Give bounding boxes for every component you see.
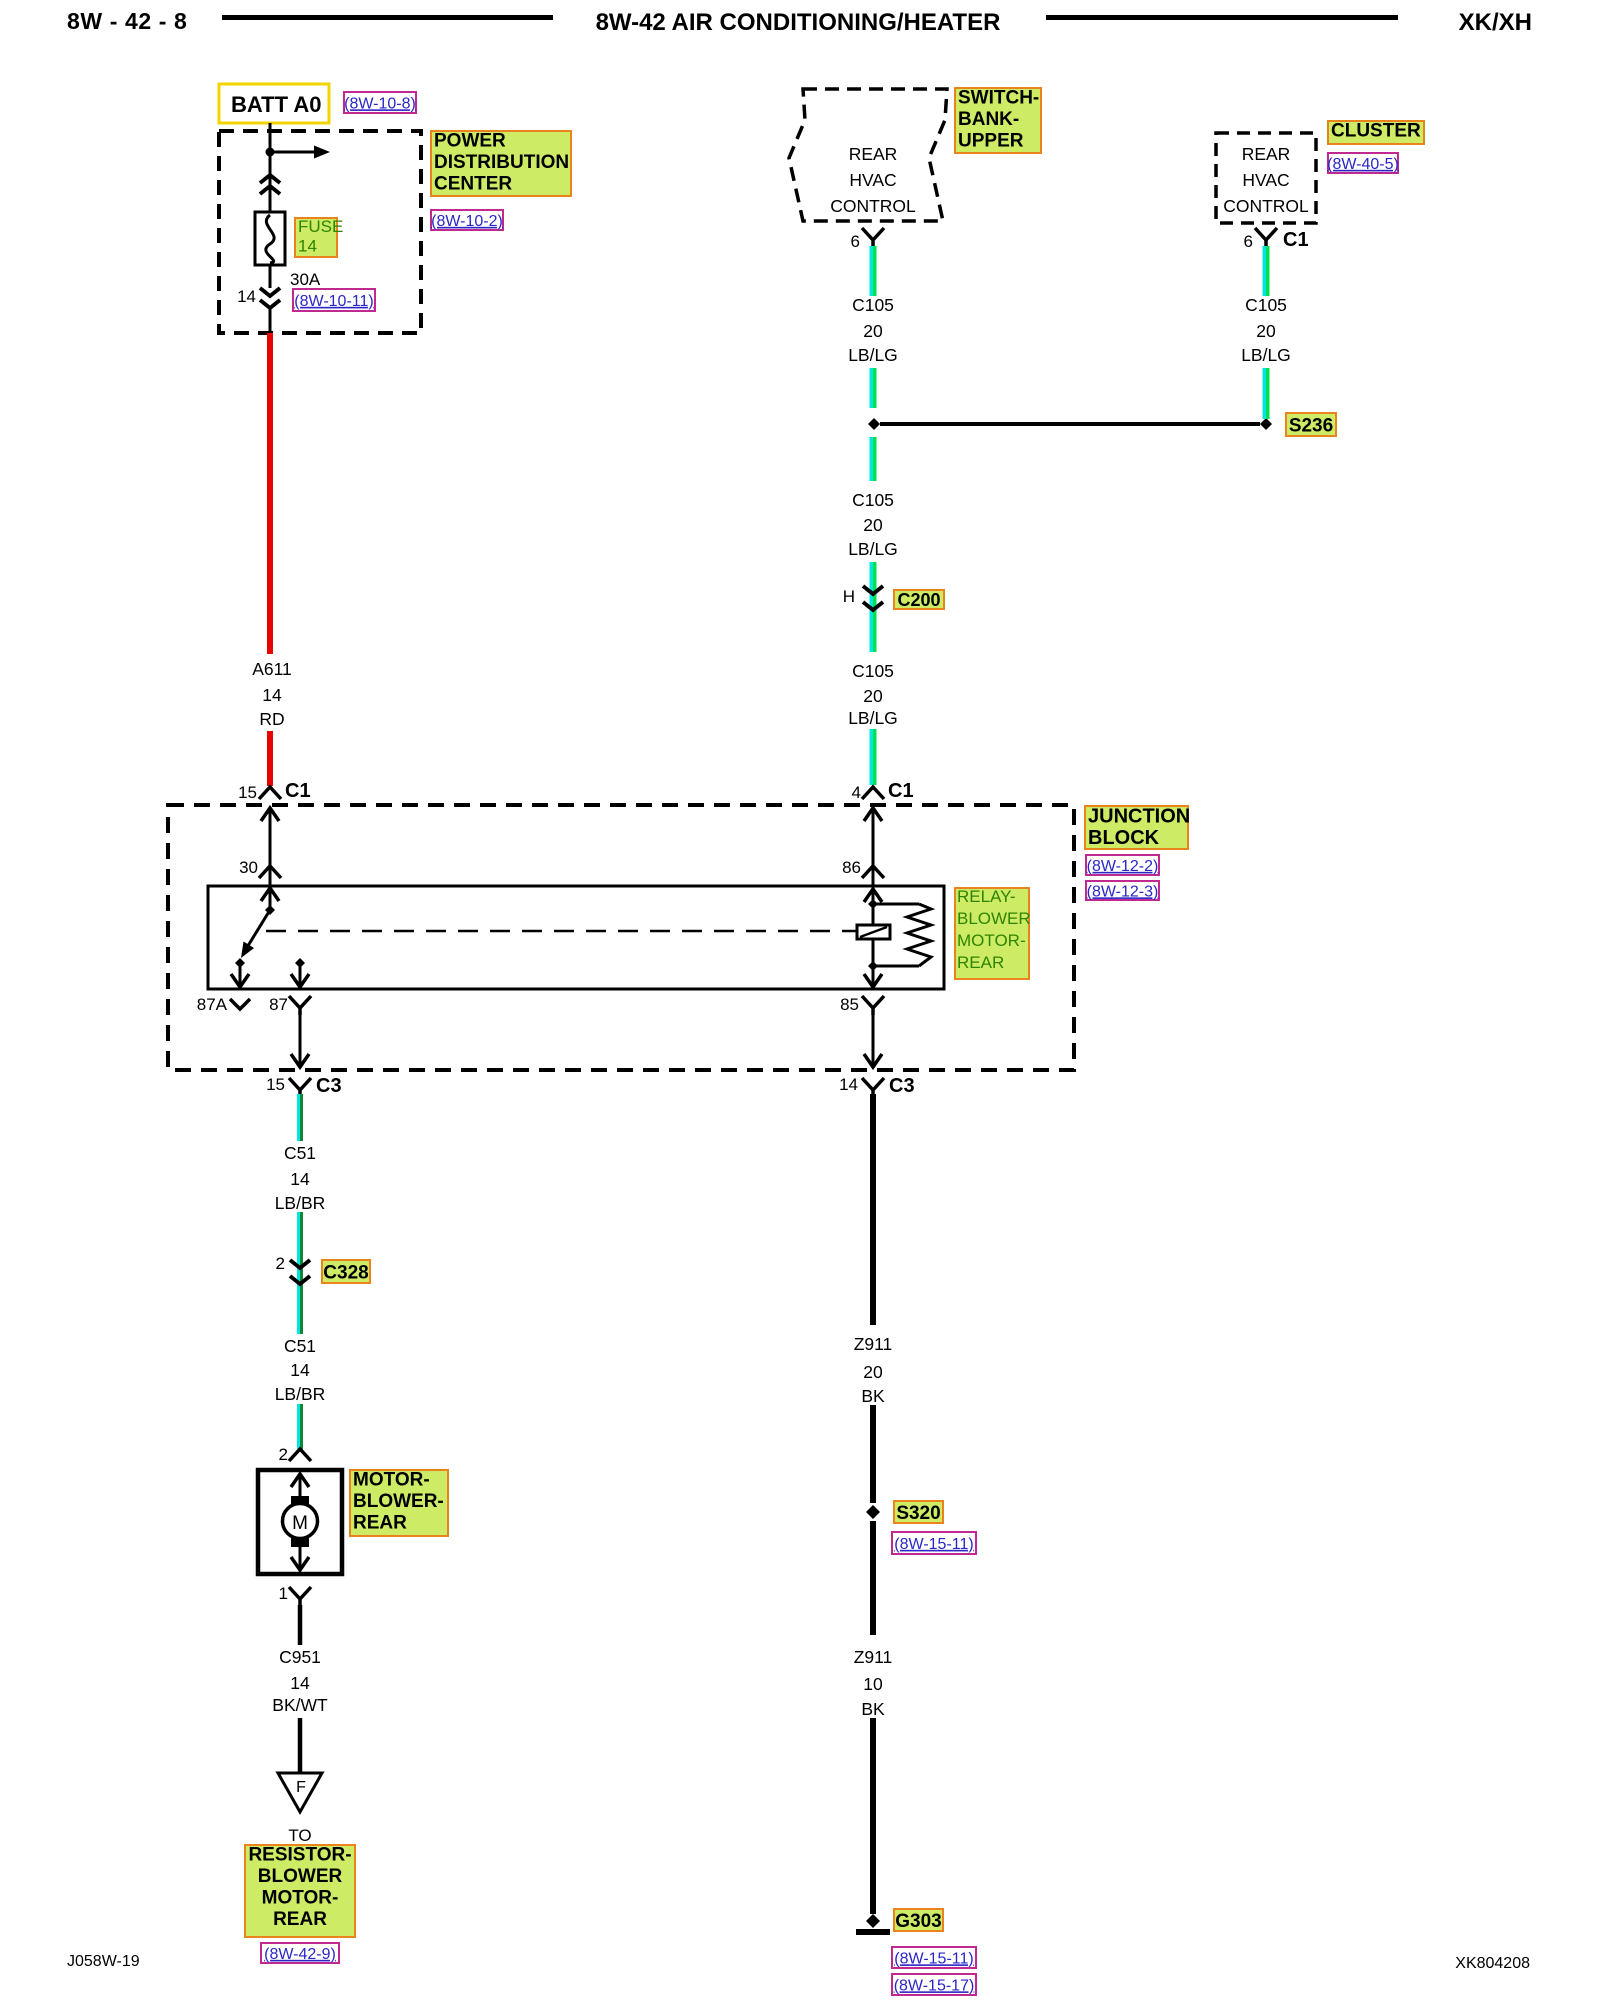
power distribution center box — [219, 131, 421, 333]
svg-text:BATT A0: BATT A0 — [231, 92, 321, 117]
wire C51 LB/BR seg4 — [297, 1404, 303, 1450]
svg-text:C105: C105 — [852, 490, 894, 510]
svg-text:BLOWER: BLOWER — [957, 909, 1031, 928]
relay common arrow — [261, 888, 279, 901]
connector pin 87 — [289, 996, 311, 1015]
svg-text:CLUSTER: CLUSTER — [1331, 121, 1421, 142]
svg-text:C328: C328 — [323, 1262, 368, 1283]
wire C1 pin15 to relay — [269, 808, 272, 886]
svg-text:87A: 87A — [197, 995, 228, 1014]
node battery feed junction — [266, 148, 275, 157]
arrow 85 at block edge — [864, 1054, 882, 1067]
cluster rear hvac control outline — [1216, 133, 1316, 223]
svg-text:(8W-10-11): (8W-10-11) — [294, 293, 373, 310]
relay switch pivot node — [265, 905, 275, 915]
connector pin 87A — [230, 999, 250, 1009]
svg-text:BLOCK: BLOCK — [1088, 827, 1160, 849]
svg-text:A611: A611 — [252, 659, 292, 679]
connector pin 1 motor — [289, 1587, 311, 1606]
svg-text:15: 15 — [266, 1075, 285, 1094]
motor armature M — [283, 1504, 318, 1539]
svg-text:LB/LG: LB/LG — [1241, 345, 1291, 365]
link 8W-42-9 — [261, 1943, 339, 1963]
svg-text:14: 14 — [290, 1673, 310, 1693]
svg-text:C1: C1 — [285, 780, 311, 802]
svg-text:C3: C3 — [316, 1075, 342, 1097]
svg-text:(8W-15-11): (8W-15-11) — [894, 1536, 973, 1553]
svg-text:LB/LG: LB/LG — [848, 539, 898, 559]
svg-text:LB/LG: LB/LG — [848, 345, 898, 365]
svg-text:TO: TO — [288, 1826, 311, 1845]
svg-text:REAR: REAR — [1242, 144, 1291, 164]
svg-text:C51: C51 — [284, 1336, 316, 1356]
svg-text:14: 14 — [839, 1075, 858, 1094]
svg-text:C200: C200 — [897, 590, 940, 610]
wire C1 pin4 to relay — [872, 808, 875, 886]
link 8W-15-11 at G303 — [892, 1947, 976, 1968]
link 8W-10-8 — [344, 92, 416, 113]
wire to 87 — [299, 963, 302, 984]
connector pin 15 C3 — [289, 1078, 311, 1097]
link 8W-12-3 — [1086, 881, 1159, 900]
svg-text:85: 85 — [840, 995, 859, 1014]
svg-text:BLOWER-: BLOWER- — [353, 1491, 444, 1512]
svg-text:RESISTOR-: RESISTOR- — [248, 1845, 351, 1866]
label FUSE 14 — [295, 217, 343, 257]
svg-text:20: 20 — [863, 1362, 883, 1382]
wire 87 to C3 — [299, 1014, 302, 1064]
link 8W-10-11 — [293, 289, 375, 311]
svg-text:SWITCH-: SWITCH- — [958, 88, 1039, 109]
wire Z911 BK seg4 — [870, 1718, 876, 1914]
label C328 — [322, 1260, 370, 1283]
svg-text:S320: S320 — [896, 1503, 940, 1524]
wire fuse to PDC edge — [269, 265, 272, 288]
svg-text:F: F — [296, 1779, 306, 1796]
svg-text:C951: C951 — [279, 1647, 321, 1667]
connector pin 15 C1 — [259, 787, 281, 799]
svg-text:(8W-42-9): (8W-42-9) — [264, 1946, 336, 1963]
arrow into junction block left — [261, 808, 279, 821]
svg-text:(8W-10-2): (8W-10-2) — [431, 213, 503, 230]
link 8W-15-17 at G303 — [892, 1974, 976, 1995]
svg-text:15: 15 — [238, 783, 257, 802]
wire BATT to fuse — [269, 123, 272, 212]
svg-text:20: 20 — [863, 686, 883, 706]
svg-text:(8W-15-17): (8W-15-17) — [894, 1977, 975, 1994]
arrow 87 at block edge — [291, 1054, 309, 1067]
wire C951 BK/WT seg1 — [298, 1605, 303, 1645]
connector pin 4 C1 — [862, 787, 884, 799]
relay coil wire — [872, 889, 875, 986]
svg-text:REAR: REAR — [353, 1513, 407, 1534]
svg-text:(8W-10-8): (8W-10-8) — [344, 95, 416, 112]
svg-text:20: 20 — [1256, 321, 1276, 341]
svg-text:1: 1 — [279, 1584, 288, 1603]
motor brush top — [291, 1496, 309, 1506]
svg-text:6: 6 — [1244, 232, 1253, 251]
connector pin 30 — [259, 866, 281, 878]
svg-text:LB/BR: LB/BR — [275, 1193, 326, 1213]
wire C105 LB/LG cluster seg2 — [1263, 368, 1270, 419]
wire C105 LB/LG cluster seg1 — [1263, 246, 1270, 296]
relay coil element — [857, 925, 890, 939]
wire 85 to C3 — [872, 1014, 875, 1064]
relay actuator dashed link — [266, 930, 857, 933]
splice node S320 — [866, 1505, 880, 1519]
header rule right — [1046, 15, 1398, 20]
feed arrow to other circuits — [270, 146, 330, 159]
label POWER DISTRIBUTION CENTER — [431, 131, 571, 196]
connector pin 85 — [862, 996, 884, 1015]
svg-text:HVAC: HVAC — [1242, 170, 1289, 190]
svg-text:REAR: REAR — [273, 1909, 327, 1930]
relay switch lever — [241, 910, 270, 958]
wire C105 LB/LG seg6 — [870, 729, 877, 785]
svg-text:POWER: POWER — [434, 131, 506, 152]
svg-text:6: 6 — [851, 232, 860, 251]
relay common stub — [269, 888, 272, 910]
motor lead arrow bottom — [291, 1557, 309, 1570]
wire C105 LB/LG seg3 — [870, 437, 877, 481]
svg-text:S236: S236 — [1289, 415, 1333, 436]
wire C105 LB/LG seg1 — [870, 246, 877, 296]
svg-text:(8W-40-5): (8W-40-5) — [1327, 156, 1399, 173]
svg-text:BK: BK — [861, 1699, 885, 1719]
label JUNCTION BLOCK — [1085, 806, 1190, 850]
connector pin 2 motor — [289, 1449, 311, 1461]
svg-text:XK804208: XK804208 — [1455, 1955, 1530, 1972]
svg-text:30: 30 — [239, 858, 258, 877]
svg-text:30A: 30A — [290, 270, 321, 289]
svg-text:REAR: REAR — [849, 144, 898, 164]
wire Z911 BK seg3 — [870, 1521, 876, 1635]
svg-text:CONTROL: CONTROL — [830, 196, 916, 216]
svg-text:4: 4 — [852, 783, 861, 802]
splice S236 crossbar — [880, 422, 1260, 426]
wire to 87A — [239, 963, 242, 984]
wire Z911 BK seg1 — [870, 1094, 876, 1325]
connector pin 86 — [862, 866, 884, 878]
fuse F14 — [255, 212, 285, 265]
svg-text:CENTER: CENTER — [434, 174, 512, 195]
svg-text:Z911: Z911 — [854, 1647, 893, 1667]
label RELAY-BLOWER MOTOR-REAR — [955, 887, 1031, 979]
svg-text:MOTOR-: MOTOR- — [262, 1888, 339, 1909]
svg-text:C51: C51 — [284, 1143, 316, 1163]
svg-text:BK: BK — [861, 1386, 885, 1406]
label RESISTOR-BLOWER MOTOR-REAR — [245, 1845, 355, 1937]
connector chevrons pin 14 — [260, 288, 280, 308]
svg-text:J058W-19: J058W-19 — [67, 1953, 140, 1970]
svg-text:C105: C105 — [1245, 295, 1287, 315]
svg-text:BK/WT: BK/WT — [272, 1695, 328, 1715]
motor brush bottom — [291, 1537, 309, 1547]
wire C951 BK/WT seg2 — [298, 1718, 303, 1773]
wire Z911 BK seg2 — [870, 1405, 876, 1503]
svg-text:2: 2 — [279, 1445, 288, 1464]
svg-text:LB/BR: LB/BR — [275, 1384, 326, 1404]
motor blower rear box — [258, 1470, 342, 1574]
relay coil arrow bottom — [864, 974, 882, 987]
battery feed BATT A0 — [219, 84, 329, 123]
svg-text:(8W-15-11): (8W-15-11) — [894, 1950, 973, 1967]
svg-text:C1: C1 — [1283, 229, 1309, 251]
svg-text:M: M — [292, 1513, 308, 1534]
svg-text:HVAC: HVAC — [849, 170, 896, 190]
svg-text:C3: C3 — [889, 1075, 915, 1097]
wire A611 RD lower — [267, 731, 273, 786]
relay blower motor rear box — [208, 886, 944, 989]
wire C105 LB/LG seg4 — [870, 562, 877, 652]
svg-text:FUSE: FUSE — [298, 217, 343, 236]
svg-text:20: 20 — [863, 321, 883, 341]
relay coil arrow top — [864, 889, 882, 902]
svg-text:BLOWER: BLOWER — [258, 1866, 343, 1887]
svg-text:C105: C105 — [852, 661, 894, 681]
wire C51 LB/BR seg2 — [297, 1212, 303, 1334]
node 87 — [295, 958, 305, 968]
arrow 87A — [231, 974, 249, 987]
link 8W-40-5 — [1327, 153, 1399, 173]
svg-text:86: 86 — [842, 858, 861, 877]
off-page connector F — [278, 1773, 322, 1812]
label S320 — [894, 1501, 943, 1524]
motor lead arrow top — [291, 1474, 309, 1487]
svg-text:Z911: Z911 — [854, 1334, 893, 1354]
label C200 — [894, 590, 944, 610]
svg-text:REAR: REAR — [957, 953, 1004, 972]
label SWITCH-BANK-UPPER — [955, 88, 1041, 153]
label G303 — [894, 1909, 943, 1932]
motor lead top — [299, 1474, 302, 1498]
link 8W-15-11 at S320 — [892, 1532, 976, 1554]
connector pin 6 C1 (cluster) — [1255, 228, 1277, 247]
svg-text:87: 87 — [269, 995, 288, 1014]
wire C51 LB/BR seg1 — [297, 1094, 303, 1141]
svg-text:14: 14 — [290, 1169, 310, 1189]
svg-text:8W - 42 - 8: 8W - 42 - 8 — [67, 8, 187, 34]
relay coil node bottom — [868, 961, 878, 971]
svg-text:XK/XH: XK/XH — [1459, 9, 1532, 36]
svg-text:H: H — [843, 587, 855, 606]
junction block outline — [168, 805, 1074, 1070]
svg-text:(8W-12-3): (8W-12-3) — [1087, 883, 1159, 900]
svg-text:C1: C1 — [888, 780, 914, 802]
svg-text:14: 14 — [298, 237, 317, 256]
wire C105 LB/LG seg2 — [870, 368, 877, 408]
connector pin 6 (switch bank) — [862, 228, 884, 247]
relay coil resistor branch — [873, 904, 931, 966]
svg-text:RELAY-: RELAY- — [957, 887, 1016, 906]
node 87A — [235, 958, 245, 968]
svg-text:JUNCTION: JUNCTION — [1088, 806, 1190, 828]
switch bank upper outline — [789, 89, 947, 221]
label S236 — [1286, 413, 1336, 436]
svg-text:DISTRIBUTION: DISTRIBUTION — [434, 152, 569, 173]
link 8W-12-2 — [1086, 855, 1159, 875]
svg-text:20: 20 — [863, 515, 883, 535]
motor lead bottom — [299, 1547, 302, 1570]
link 8W-10-2 — [431, 210, 503, 230]
svg-text:UPPER: UPPER — [958, 131, 1024, 152]
header rule left — [222, 15, 553, 20]
splice node S236 left — [868, 418, 880, 430]
svg-text:14: 14 — [290, 1360, 310, 1380]
svg-text:MOTOR-: MOTOR- — [957, 931, 1026, 950]
svg-text:G303: G303 — [895, 1911, 941, 1932]
svg-text:CONTROL: CONTROL — [1223, 196, 1309, 216]
connector C200 chevrons — [863, 586, 883, 610]
wire A611 RD upper — [267, 333, 273, 654]
arrow into junction block right — [864, 808, 882, 821]
connector C328 chevrons — [290, 1260, 310, 1284]
svg-text:10: 10 — [863, 1674, 883, 1694]
label CLUSTER — [1328, 121, 1424, 144]
connector pin 14 C3 — [862, 1078, 884, 1097]
svg-text:2: 2 — [276, 1254, 285, 1273]
label MOTOR-BLOWER-REAR — [350, 1470, 448, 1536]
svg-text:(8W-12-2): (8W-12-2) — [1087, 858, 1159, 875]
svg-text:8W-42 AIR CONDITIONING/HEATER: 8W-42 AIR CONDITIONING/HEATER — [596, 9, 1001, 36]
ground G303 symbol — [856, 1914, 890, 1935]
svg-text:LB/LG: LB/LG — [848, 708, 898, 728]
svg-text:14: 14 — [262, 685, 282, 705]
arrow 87 — [291, 974, 309, 987]
wire chevron to PDC edge — [269, 308, 272, 333]
connector chevrons in PDC — [260, 175, 280, 194]
svg-text:14: 14 — [237, 287, 256, 306]
relay coil node top — [868, 899, 878, 909]
svg-text:RD: RD — [259, 709, 284, 729]
svg-text:BANK-: BANK- — [958, 109, 1019, 130]
svg-text:C105: C105 — [852, 295, 894, 315]
svg-text:MOTOR-: MOTOR- — [353, 1470, 430, 1491]
splice node S236 right — [1260, 418, 1272, 430]
